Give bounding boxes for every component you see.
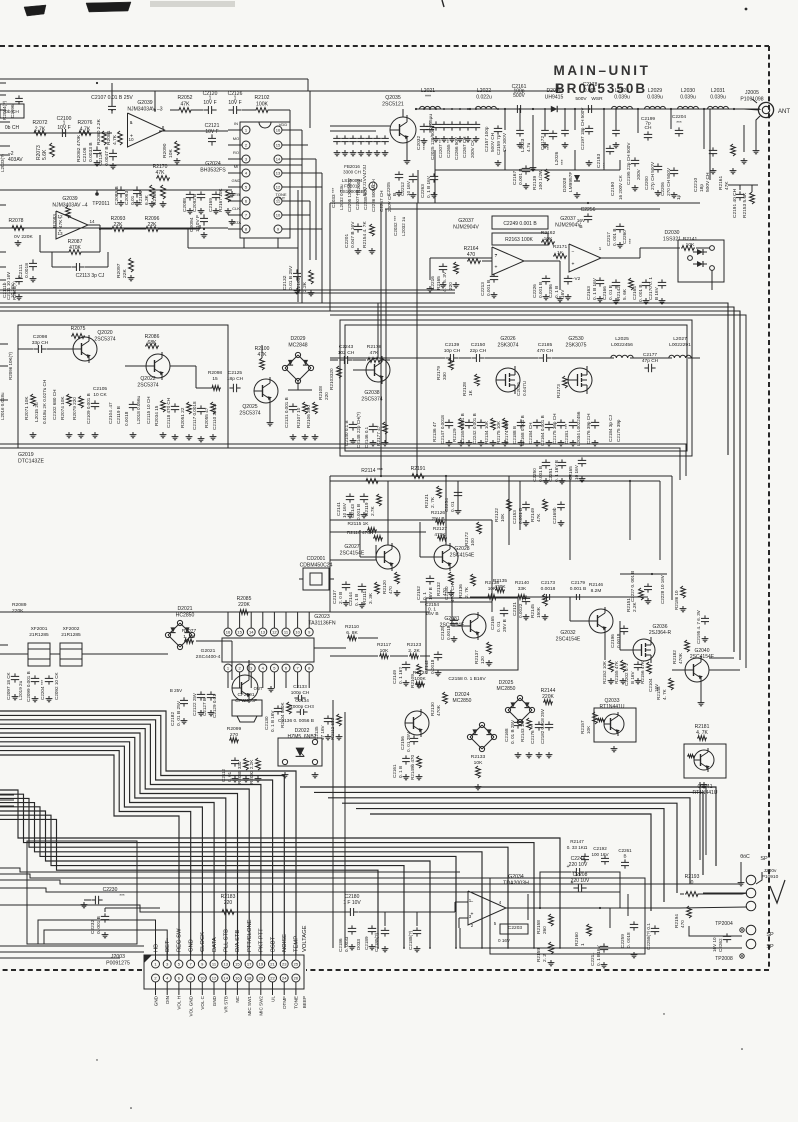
svg-text:C2127 B: C2127 B	[202, 698, 207, 716]
diode pack D2030 box	[678, 240, 724, 282]
svg-text:R2102: R2102	[254, 95, 269, 101]
node dots bus A	[96, 82, 98, 84]
svg-text:0.0018: 0.0018	[446, 625, 451, 640]
wire vertical x155	[154, 91, 156, 112]
svg-text:MC2850: MC2850	[497, 686, 516, 692]
wire IF top bus y481	[330, 480, 660, 482]
svg-text:18p: 18p	[699, 184, 705, 192]
wire quad line y597	[470, 596, 648, 598]
cap bank left of Q2035	[336, 135, 338, 138]
svg-text:21R1285: 21R1285	[61, 632, 81, 638]
svg-text:C2185(?): C2185(?)	[374, 932, 379, 952]
wire into op-amp U2039c	[0, 132, 112, 134]
svg-text:L2034 L0022456: L2034 L0022456	[576, 411, 581, 446]
svg-text:120: 120	[480, 656, 485, 664]
svg-text:200V: 200V	[636, 168, 641, 180]
scan artifact tick	[442, 0, 444, 7]
svg-text:23: 23	[282, 962, 287, 967]
ground IC pins	[231, 191, 233, 194]
svg-text:LS190094: LS190094	[342, 178, 363, 183]
svg-text:C2192: C2192	[593, 846, 607, 851]
long lower horizontals	[0, 868, 460, 872]
svg-text:C2181 ***: C2181 ***	[564, 424, 569, 444]
transistor Q2028	[434, 545, 458, 569]
wire long bus y311	[0, 311, 740, 660]
svg-text:0.039u: 0.039u	[614, 94, 630, 100]
crystal CD2001 box	[303, 568, 329, 590]
wire Q2027 Q2028 to bus	[387, 481, 389, 545]
svg-text:R2191: R2191	[411, 466, 426, 472]
svg-text:21R1285: 21R1285	[29, 632, 49, 638]
svg-text:C2032: C2032	[416, 136, 422, 150]
svg-text:100p CH: 100p CH	[291, 690, 310, 695]
svg-text:200V CK: 200V CK	[387, 193, 392, 212]
wire vertical x660	[659, 481, 661, 560]
svg-text:10V F: 10V F	[228, 100, 241, 106]
svg-text:C2132: C2132	[282, 275, 288, 290]
svg-text:0. 1 B 16V: 0. 1 B 16V	[426, 175, 431, 198]
transistor Q2021	[232, 675, 258, 701]
svg-text:C2157 100p: C2157 100p	[484, 126, 489, 152]
wire Q2040 wiring	[672, 669, 685, 671]
svg-text:C2032 ***: C2032 ***	[393, 216, 398, 236]
svg-text:2SC5374: 2SC5374	[94, 336, 115, 342]
svg-text:C2092 10 CK: C2092 10 CK	[54, 671, 59, 700]
svg-text:C2110 30 CJ: C2110 30 CJ	[212, 404, 217, 430]
svg-text:2SC5374: 2SC5374	[137, 382, 158, 388]
svg-text:VR STB: VR STB	[224, 996, 229, 1013]
filter CF2001	[232, 700, 262, 716]
svg-text:12: 12	[212, 976, 217, 981]
svg-text:R2143 1M: R2143 1M	[520, 721, 525, 742]
svg-text:14: 14	[223, 976, 228, 981]
svg-text:R2082 470K: R2082 470K	[76, 134, 82, 162]
svg-text:R2137: R2137	[474, 650, 479, 664]
svg-text:TDA2003H: TDA2003H	[503, 880, 529, 886]
svg-text:150K: 150K	[536, 606, 541, 618]
svg-text:C2260: C2260	[622, 230, 627, 244]
wires converging left of connector	[0, 945, 144, 947]
svg-text:R2090: R2090	[162, 143, 168, 158]
wire bus y190	[0, 189, 232, 191]
svg-text:R2140: R2140	[515, 580, 529, 586]
svg-text:R2127: R2127	[433, 526, 447, 532]
svg-text:R2194: R2194	[674, 914, 679, 928]
svg-text:2. 2: 2. 2	[542, 954, 547, 962]
svg-text:+: +	[571, 880, 574, 886]
svg-text:R2148: R2148	[656, 686, 661, 700]
svg-text:27p CH 500V: 27p CH 500V	[650, 161, 655, 190]
svg-text:16: 16	[235, 976, 240, 981]
ground row under TP2011	[120, 200, 122, 203]
svg-text:R2107 10: R2107 10	[296, 407, 301, 428]
svg-text:R2169: R2169	[152, 191, 158, 205]
connector pin1 marker	[144, 955, 152, 963]
svg-text:C2196: C2196	[610, 634, 615, 648]
svg-text:200V CK: 200V CK	[470, 139, 475, 158]
dashed border right	[768, 46, 770, 970]
svg-text:220K: 220K	[12, 608, 24, 614]
svg-text:C2141: C2141	[336, 502, 341, 516]
svg-text:4.7K: 4.7K	[112, 134, 118, 145]
svg-text:C2176 39p CH: C2176 39p CH	[586, 414, 591, 444]
svg-text:0.039u: 0.039u	[680, 94, 696, 100]
wire speaker arrow	[756, 872, 762, 884]
svg-text:R2093: R2093	[111, 216, 126, 222]
svg-text:2.2K: 2.2K	[302, 281, 308, 292]
svg-text:R2099: R2099	[227, 726, 242, 732]
svg-text:R2142: R2142	[616, 286, 621, 300]
svg-text:GND: GND	[188, 939, 194, 952]
svg-text:0.047U: 0.047U	[522, 380, 527, 396]
svg-text:C2152: C2152	[416, 586, 421, 600]
svg-text:R2173: R2173	[556, 384, 561, 398]
svg-text:2. 2K: 2. 2K	[408, 648, 420, 654]
svg-text:C2170 0. 1: C2170 0. 1	[648, 277, 653, 300]
svg-text:0. 1 B: 0. 1 B	[554, 286, 559, 298]
svg-text:4. 7K: 4. 7K	[696, 730, 708, 736]
vertical cap bank under bus x436-480	[435, 121, 437, 124]
svg-text:0. 0018: 0. 0018	[626, 932, 631, 948]
svg-text:VOLTAGE: VOLTAGE	[302, 925, 308, 952]
svg-text:C2180: C2180	[345, 894, 360, 900]
svg-text:L2022: L2022	[477, 88, 491, 94]
svg-text:MO: MO	[233, 136, 239, 141]
svg-text:0. 01 B: 0. 01 B	[608, 285, 613, 300]
svg-text:10: 10	[276, 213, 281, 218]
svg-text:270 CH 500V: 270 CH 500V	[666, 167, 671, 196]
svg-text:R2072: R2072	[32, 120, 47, 126]
svg-text:10 16V: 10 16V	[10, 283, 15, 298]
svg-text:UH9415: UH9415	[545, 94, 564, 100]
svg-text:1K: 1K	[468, 389, 473, 396]
svg-text:C2178: C2178	[583, 82, 598, 88]
svg-text:R2178: R2178	[367, 344, 382, 350]
svg-text:14: 14	[89, 219, 95, 224]
junction dots RF bus 2	[423, 108, 425, 110]
svg-text:14: 14	[276, 157, 281, 162]
extra grounds opamp area	[429, 286, 431, 289]
svg-text:47p CH: 47p CH	[642, 358, 659, 364]
svg-text:0. 001 B: 0. 001 B	[96, 916, 102, 934]
svg-text:−V2: −V2	[572, 276, 581, 281]
RF strip extra cap bank x420-433	[423, 123, 425, 126]
wire Q2035 emitter down	[406, 144, 408, 158]
wire left stubs top	[0, 121, 10, 123]
wire right-stub y185	[711, 270, 713, 290]
bus fan B nested lines	[0, 790, 560, 948]
svg-text:C2243: C2243	[339, 344, 354, 350]
transistor Q2038	[366, 358, 390, 382]
svg-text:L2031: L2031	[711, 88, 725, 94]
wire RF block verticals	[504, 109, 506, 130]
svg-text:100 1/2W: 100 1/2W	[538, 169, 544, 190]
svg-text:SP: SP	[766, 944, 774, 950]
svg-text:15: 15	[237, 630, 242, 635]
svg-text:R2157: R2157	[580, 720, 585, 734]
svg-text:ANT: ANT	[778, 109, 790, 115]
wire vertical x386	[385, 209, 387, 444]
svg-text:BEEP: BEEP	[302, 996, 307, 1008]
svg-text:G2037: G2037	[458, 218, 474, 224]
connector top pin wires	[155, 938, 157, 960]
svg-text:PKT PTT: PKT PTT	[259, 928, 265, 952]
svg-text:R2177 47: R2177 47	[376, 425, 381, 446]
svg-text:C2262: C2262	[718, 938, 723, 952]
svg-text:MAIN–UNIT: MAIN–UNIT	[554, 63, 651, 78]
svg-text:B 16V: B 16V	[654, 286, 659, 300]
svg-text:470K: 470K	[69, 245, 81, 251]
svg-text:OUT: OUT	[254, 686, 263, 691]
svg-text:R2134 10K: R2134 10K	[484, 420, 489, 444]
svg-text:0.0033 B: 0.0033 B	[88, 142, 94, 162]
wire R2102 to IC	[289, 110, 291, 130]
svg-text:C2195 22p CH 500V: C2195 22p CH 500V	[626, 142, 631, 185]
left mid stubs	[0, 343, 8, 345]
svg-text:3300 CH: 3300 CH	[343, 170, 361, 175]
RF vertical drops to box	[434, 150, 436, 170]
svg-text:C2128: C2128	[440, 626, 445, 640]
svg-text:500V: 500V	[575, 96, 587, 102]
svg-text:220: 220	[324, 392, 329, 400]
svg-text:12: 12	[276, 185, 281, 190]
svg-text:270: 270	[230, 732, 238, 738]
svg-text:C2121: C2121	[512, 602, 517, 616]
svg-text:G2038: G2038	[364, 390, 379, 396]
scan artifact top	[86, 2, 131, 12]
wire feedback	[540, 872, 571, 908]
svg-text:C2099 0.001 B: C2099 0.001 B	[26, 671, 31, 702]
op-amp U2037a	[492, 247, 524, 275]
box 0b CH stub	[0, 104, 24, 118]
svg-text:G2040: G2040	[694, 648, 709, 654]
svg-text:L2016 0.018u: L2016 0.018u	[0, 392, 5, 420]
shield box outer	[340, 320, 692, 456]
svg-text:L2025: L2025	[615, 336, 629, 342]
ground row band2	[32, 276, 34, 279]
wire SP wiring	[689, 926, 742, 936]
svg-text:C2175 36p CH: C2175 36p CH	[552, 414, 557, 444]
svg-text:0. 01: 0. 01	[450, 501, 455, 512]
op-amp U2037b	[569, 244, 601, 272]
svg-text:13: 13	[57, 231, 63, 236]
transistor Q2025	[254, 379, 278, 403]
svg-text:470: 470	[388, 586, 393, 594]
svg-text:C2197 18p CH 500V: C2197 18p CH 500V	[580, 107, 585, 150]
wire op-amp output	[159, 130, 228, 132]
svg-text:R2111: R2111	[362, 590, 367, 604]
svg-text:CLK: CLK	[232, 206, 240, 211]
wire vertical x672 right IF	[671, 476, 673, 600]
svg-text:PLL STB: PLL STB	[224, 929, 230, 952]
svg-text:R2167 10K: R2167 10K	[218, 188, 223, 212]
svg-text:C2208: C2208	[573, 872, 588, 878]
svg-text:−: −	[572, 250, 575, 256]
svg-text:WSR: WSR	[591, 96, 603, 102]
svg-text:+: +	[495, 265, 498, 271]
svg-text:CD2001: CD2001	[307, 556, 326, 562]
svg-text:0.0018: 0.0018	[430, 659, 435, 674]
svg-text:B 25V: B 25V	[170, 688, 182, 693]
svg-text:0. 001 B: 0. 001 B	[638, 285, 643, 302]
svg-text:R2123: R2123	[407, 642, 422, 648]
IC Q2023 top pins	[224, 628, 232, 636]
wire opamp2 out	[100, 228, 111, 230]
transistor Q2022	[146, 354, 170, 378]
svg-text:DATA: DATA	[231, 220, 241, 225]
wire Q2038 connections	[377, 345, 379, 358]
svg-text:R2074 10K: R2074 10K	[60, 396, 65, 420]
svg-text:20: 20	[259, 976, 264, 981]
svg-text:R2110: R2110	[345, 624, 359, 630]
svg-text:C2217: C2217	[606, 232, 611, 246]
svg-text:R2144: R2144	[541, 688, 556, 694]
svg-text:4. 7K: 4. 7K	[662, 688, 667, 700]
svg-text:2SC5374: 2SC5374	[239, 410, 260, 416]
wire detector to Q2036	[620, 649, 633, 651]
wire Q2022 to Q2025	[170, 365, 196, 367]
svg-text:R2130: R2130	[430, 702, 435, 716]
svg-text:100K: 100K	[414, 676, 426, 682]
svg-text:G2034: G2034	[508, 874, 524, 880]
svg-text:R2141: R2141	[683, 236, 698, 242]
ground Q2033	[613, 746, 615, 749]
svg-text:0.022u: 0.022u	[476, 94, 492, 100]
svg-text:R2183: R2183	[221, 894, 236, 900]
svg-text:R2096 10K(?): R2096 10K(?)	[8, 351, 13, 380]
svg-text:33K: 33K	[518, 586, 527, 592]
svg-text:C2102 680 CH: C2102 680 CH	[52, 390, 57, 420]
svg-text:–2: –2	[8, 151, 14, 157]
svg-text:VOL GND: VOL GND	[188, 995, 193, 1016]
svg-text:R2149b 470: R2149b 470	[410, 755, 415, 780]
svg-text:SP: SP	[760, 856, 768, 862]
svg-text:2. 0 B: 2. 0 B	[338, 592, 343, 604]
svg-text:C2286 500V CH: C2286 500V CH	[371, 179, 376, 212]
svg-text:2SJ364-R: 2SJ364-R	[649, 630, 672, 636]
svg-text:C2188 B: C2188 B	[512, 426, 517, 444]
svg-text:J200v: J200v	[764, 868, 777, 874]
svg-text:14: 14	[249, 630, 254, 635]
svg-text:0.001 B: 0.001 B	[570, 586, 587, 592]
svg-text:R2122: R2122	[494, 508, 499, 522]
svg-text:Q2033: Q2033	[604, 698, 619, 704]
svg-text:C2182: C2182	[170, 712, 176, 726]
svg-text:18p CH: 18p CH	[227, 376, 244, 382]
svg-text:C2182 0.018 25V: C2182 0.018 25V	[540, 709, 545, 744]
svg-text:D/A STB: D/A STB	[235, 930, 241, 952]
svg-text:MI: MI	[234, 164, 238, 169]
svg-text:C2184 CH: C2184 CH	[528, 423, 533, 444]
svg-text:C2149: C2149	[392, 670, 397, 684]
IC Q2023 bottom pins	[224, 664, 232, 672]
svg-text:0.001 B: 0.001 B	[518, 168, 524, 185]
verticals from CF area to connector	[332, 700, 334, 948]
svg-text:2.7K: 2.7K	[35, 126, 46, 132]
svg-text:C2175 39p: C2175 39p	[616, 419, 621, 442]
svg-text:NJM3403AV –4: NJM3403AV –4	[52, 202, 87, 208]
svg-text:C2226: C2226	[532, 284, 537, 298]
svg-text:500V: 500V	[513, 93, 525, 99]
svg-text:STB: STB	[232, 192, 240, 197]
svg-text:L2030: L2030	[681, 88, 695, 94]
svg-text:R2170: R2170	[153, 164, 168, 170]
svg-text:XF2002: XF2002	[63, 626, 80, 632]
wire R2193 to pin2	[742, 893, 747, 894]
svg-text:9: 9	[130, 120, 133, 125]
svg-text:0.01 B 25V: 0.01 B 25V	[288, 265, 294, 290]
diode D2022 box	[278, 738, 322, 766]
svg-text:BSBT: BSBT	[270, 936, 276, 952]
svg-text:FB2016: FB2016	[344, 164, 360, 169]
svg-text:MC2850: MC2850	[453, 698, 472, 704]
svg-text:0b CH: 0b CH	[5, 125, 20, 131]
svg-text:R2098: R2098	[208, 370, 222, 376]
svg-text:CLOCK: CLOCK	[200, 932, 206, 952]
crystal XF2002	[60, 643, 82, 666]
svg-text:R2079 220: R2079 220	[72, 397, 77, 420]
svg-text:C2256: C2256	[581, 207, 596, 213]
svg-text:C2155 0.001 B: C2155 0.001 B	[460, 413, 465, 444]
svg-text:B 16V: B 16V	[630, 671, 635, 684]
svg-text:NOISE: NOISE	[282, 934, 288, 952]
svg-text:2SC4400-4: 2SC4400-4	[196, 654, 221, 660]
wire top-left bus B	[0, 90, 558, 92]
ANT connector J2005	[758, 102, 773, 117]
wire bus y225 to IC	[0, 227, 228, 229]
svg-text:R2136 47: R2136 47	[432, 422, 437, 442]
svg-text:220 10V: 220 10V	[571, 878, 590, 884]
svg-text:10p CH: 10p CH	[444, 348, 461, 354]
svg-text:IN: IN	[234, 121, 238, 126]
svg-text:C2098: C2098	[33, 334, 48, 340]
svg-text:***: ***	[676, 120, 682, 126]
speaker V glyph	[770, 880, 785, 903]
svg-text:G2021: G2021	[201, 648, 216, 654]
svg-text:PTT/CLONE: PTT/CLONE	[247, 919, 253, 952]
svg-text:26: 26	[294, 976, 299, 981]
svg-text:R2087: R2087	[68, 239, 83, 245]
svg-text:R2096: R2096	[145, 216, 160, 222]
IC U2024 left pins	[242, 126, 250, 134]
svg-text:VDD: VDD	[279, 122, 288, 127]
svg-text:L2028: L2028	[615, 88, 629, 94]
svg-text:C2188(?): C2188(?)	[408, 930, 413, 950]
svg-text:21: 21	[270, 962, 275, 967]
connector J2003 body	[144, 955, 304, 989]
svg-text:C2139: C2139	[445, 342, 460, 348]
svg-text:15: 15	[235, 962, 240, 967]
svg-text:3. 3K: 3. 3K	[368, 592, 373, 604]
wire pin3 to left box	[44, 930, 167, 960]
svg-text:4. 7 6. 3V: 4. 7 6. 3V	[442, 271, 447, 292]
diode pack D2024	[482, 725, 494, 737]
svg-text:C2227 0. 001 B: C2227 0. 001 B	[630, 571, 635, 602]
svg-text:4.7K: 4.7K	[80, 126, 91, 132]
svg-text:13: 13	[261, 630, 266, 635]
svg-text:R2133: R2133	[471, 754, 486, 760]
svg-text:C2137: C2137	[332, 590, 337, 604]
svg-text:HZM5. 6NB2: HZM5. 6NB2	[288, 734, 317, 740]
svg-text:15: 15	[276, 143, 281, 148]
svg-text:***: ***	[425, 94, 431, 100]
svg-text:2SC5121: 2SC5121	[382, 101, 404, 107]
svg-text:B: B	[392, 193, 397, 196]
wire amp inputs	[300, 911, 346, 913]
svg-text:TP2004: TP2004	[715, 921, 733, 927]
svg-text:220: 220	[448, 282, 453, 290]
svg-text:C2251: C2251	[548, 468, 553, 482]
